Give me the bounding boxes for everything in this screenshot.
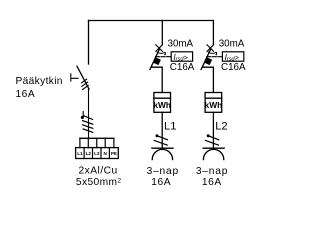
RCBO F1 blade: [150, 49, 160, 70]
cable marker tick: [82, 112, 84, 116]
socket outlet arc (left): [152, 149, 172, 159]
svg-text:Pääkytkin: Pääkytkin: [16, 76, 63, 87]
terminal block comb stubs: [80, 138, 114, 147]
Irsd box (left): [171, 52, 192, 61]
terminal block row box: [76, 148, 119, 159]
wire: right branch drop: [212, 21, 214, 45]
svg-text:5x50mm2: 5x50mm2: [76, 177, 122, 188]
socket outlet bar (left): [152, 147, 173, 149]
svg-text:Irsd>: Irsd>: [173, 53, 187, 63]
terminal block dividers: [84, 148, 109, 159]
svg-text:2xAl/Cu: 2xAl/Cu: [79, 166, 118, 177]
Irsd box (right): [222, 52, 243, 61]
svg-text:kWh: kWh: [205, 100, 223, 110]
svg-text:16A: 16A: [202, 177, 222, 188]
svg-text:C16A: C16A: [221, 62, 246, 73]
RCBO F2 blade: [201, 49, 211, 70]
conductor marker dot (right branch): [207, 134, 210, 137]
wire: main switch to terminal comb: [88, 89, 90, 138]
main switch Pääkytkin blade: [77, 66, 89, 89]
wire: RCBO pivot to kWh meter: [151, 67, 162, 92]
RCBO F1 contact cross: [156, 45, 163, 52]
svg-text:PE: PE: [111, 151, 117, 156]
svg-text:16A: 16A: [16, 89, 36, 100]
kWh meter box (right): [205, 93, 222, 113]
main switch pole slashes (3): [82, 79, 89, 89]
RCBO F1 hook arrowhead: [164, 54, 166, 56]
kWh meter divider (left): [154, 97, 171, 99]
svg-text:Irsd>: Irsd>: [225, 53, 239, 63]
terminal labels L1 L2 L3 N PE: [77, 151, 117, 156]
socket outlet arc (right): [203, 149, 223, 159]
RCBO F2 contact cross: [207, 45, 214, 52]
terminal block comb bar: [80, 137, 114, 139]
conductor marker slashes (right branch): [205, 136, 218, 145]
svg-text:30mA: 30mA: [168, 39, 194, 50]
svg-text:N: N: [104, 151, 108, 156]
conductor marker dot (left branch): [156, 134, 159, 137]
svg-text:16A: 16A: [151, 177, 171, 188]
wire: kWh to socket (left): [161, 112, 163, 148]
cable marker slashes (4): [83, 116, 93, 133]
wire: kWh to socket (right): [212, 112, 214, 148]
main switch linkage tick: [70, 74, 72, 81]
cable marker dot: [81, 116, 84, 119]
svg-text:L1: L1: [164, 121, 176, 133]
RCBO F2 dashed linkage to Irsd box: [207, 56, 222, 58]
svg-text:30mA: 30mA: [219, 39, 245, 50]
RCBO F2 residual current block: [205, 58, 211, 64]
svg-text:3–nap: 3–nap: [147, 166, 179, 177]
svg-text:L3: L3: [94, 151, 100, 156]
svg-text:C16A: C16A: [170, 62, 195, 73]
svg-text:L2: L2: [215, 121, 227, 133]
wire: main drop from bus to main switch: [88, 21, 90, 65]
svg-text:kWh: kWh: [153, 100, 171, 110]
RCBO F1 residual current block: [154, 58, 160, 64]
wire: RCBO F2 pivot to kWh meter: [202, 67, 213, 92]
RCBO F2 hook arrowhead: [215, 54, 217, 56]
svg-text:L2: L2: [86, 151, 92, 156]
main switch linkage dashed line: [72, 77, 78, 79]
RCBO F2 RCD sensing hook: [208, 52, 216, 54]
svg-text:L1: L1: [77, 151, 83, 156]
wire: left branch drop: [161, 21, 163, 45]
RCBO F1 RCD sensing hook: [157, 52, 165, 54]
socket outlet bar (right): [203, 147, 224, 149]
kWh meter divider (right): [205, 97, 222, 99]
conductor marker slashes (left branch): [154, 136, 167, 145]
wire: top bus horizontal: [89, 20, 214, 22]
svg-text:3–nap: 3–nap: [196, 166, 228, 177]
kWh meter box (left): [154, 93, 171, 113]
RCBO F1 dashed linkage to Irsd box: [156, 56, 171, 58]
